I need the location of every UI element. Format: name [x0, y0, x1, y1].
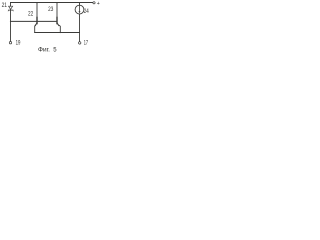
svg-text:+: + — [97, 1, 100, 7]
svg-text:19: 19 — [16, 41, 21, 47]
wire source top — [79, 3, 81, 6]
terminal 19 circle — [9, 42, 11, 44]
svg-text:17: 17 — [84, 41, 89, 47]
junction dot top rail at Q22 — [36, 2, 37, 3]
svg-text:23: 23 — [48, 7, 54, 13]
transistor Q22 base bar — [36, 17, 38, 23]
wire Q23 emitter drop — [59, 26, 61, 32]
svg-text:Фиг.5: Фиг.5 — [38, 47, 57, 53]
current source U24 circle — [75, 5, 84, 14]
junction dot bottom rail at Q23 emitter — [60, 32, 61, 33]
current source U24 arrow shaft — [79, 6, 81, 12]
transistor Q23 base bar — [56, 17, 58, 23]
wire source bottom to rail and terminal — [79, 14, 81, 42]
wire left column — [10, 10, 12, 42]
current source U24 arrowhead — [79, 11, 81, 13]
junction dot top rail at Q23 — [56, 2, 57, 3]
junction dot base line left column — [10, 21, 11, 22]
wire bottom rail — [35, 32, 80, 34]
svg-text:22: 22 — [28, 12, 34, 18]
wire top rail — [11, 2, 93, 4]
svg-text:24: 24 — [84, 9, 89, 15]
transistor Q23 collector wire — [56, 3, 58, 18]
terminal + output circle — [93, 2, 95, 4]
diode 21 — [9, 6, 13, 9]
transistor Q23 emitter — [57, 23, 59, 25]
wire base line — [11, 20, 58, 22]
transistor Q22 emitter — [35, 23, 37, 25]
wire Q22 emitter drop — [34, 26, 36, 32]
transistor Q22 collector wire — [36, 3, 38, 18]
transistor Q22 emitter arrowhead — [35, 25, 37, 27]
wire diode anode drop — [10, 3, 12, 7]
transistor Q23 emitter arrowhead — [59, 25, 61, 27]
svg-text:21: 21 — [2, 2, 8, 9]
junction dot top rail at source — [79, 2, 80, 3]
terminal 17 circle — [79, 42, 81, 44]
